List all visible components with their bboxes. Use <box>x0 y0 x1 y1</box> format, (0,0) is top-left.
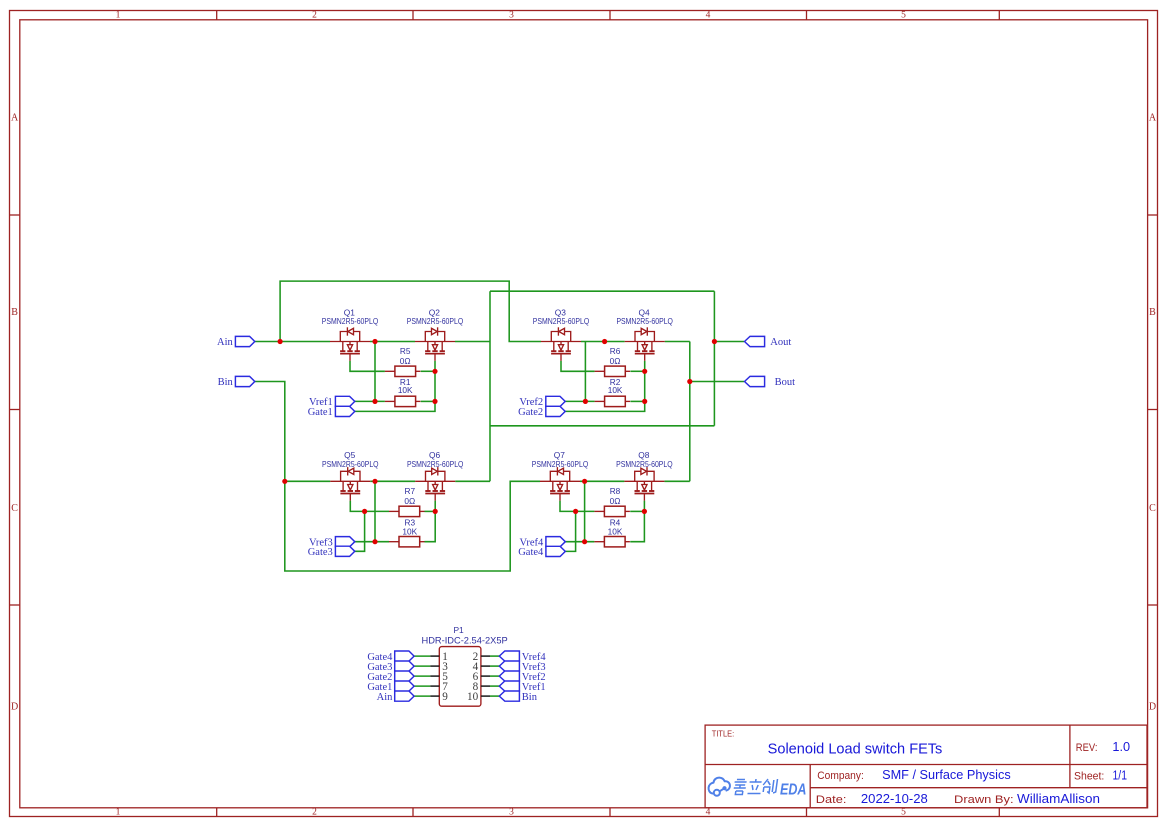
svg-text:2022-10-28: 2022-10-28 <box>861 791 928 806</box>
transistor Q4 (PSMN2R5-60PLQ) <box>625 327 665 361</box>
transistor Q8 (PSMN2R5-60PLQ) <box>624 467 664 501</box>
svg-text:R5: R5 <box>400 346 411 356</box>
svg-text:3: 3 <box>509 808 514 818</box>
junction Vref1 <box>372 399 377 404</box>
svg-text:R8: R8 <box>610 486 621 496</box>
svg-text:PSMN2R5-60PLQ: PSMN2R5-60PLQ <box>407 459 464 469</box>
svg-text:2: 2 <box>312 11 317 21</box>
svg-text:Bin: Bin <box>522 692 538 703</box>
svg-text:PSMN2R5-60PLQ: PSMN2R5-60PLQ <box>322 459 379 469</box>
wire Q2 source right <box>455 341 490 343</box>
wire Gate1 to Q2 gate <box>355 361 435 412</box>
svg-text:Ain: Ain <box>217 337 234 348</box>
svg-text:PSMN2R5-60PLQ: PSMN2R5-60PLQ <box>407 316 464 326</box>
svg-text:A: A <box>1149 113 1157 124</box>
port Gate4 <box>395 651 414 661</box>
wire R2 to Gate2 vertical <box>630 400 644 402</box>
svg-text:5: 5 <box>901 11 906 21</box>
svg-text:2: 2 <box>312 808 317 818</box>
wire Q3 gate to R6 <box>561 361 595 372</box>
wire Gate3 up <box>355 511 365 551</box>
svg-text:Gate4: Gate4 <box>518 547 544 558</box>
svg-text:PSMN2R5-60PLQ: PSMN2R5-60PLQ <box>322 316 379 326</box>
junction R2 right <box>642 399 647 404</box>
resistor R5 0&#937; <box>385 366 421 376</box>
wire P1 left pin stub <box>414 675 430 677</box>
wire Q8 gate down <box>643 501 645 512</box>
svg-text:1: 1 <box>116 11 121 21</box>
junction Bout <box>687 379 692 384</box>
junction block1 main <box>372 339 377 344</box>
wire P1 right pin stub <box>490 665 499 667</box>
svg-text:A: A <box>11 113 19 124</box>
wire Q6 gate down <box>434 501 436 512</box>
svg-text:B: B <box>11 307 18 318</box>
resistor R1 10K <box>385 396 421 406</box>
wire Q6 source right <box>455 480 490 482</box>
wire Bin branch to Q5 <box>285 480 331 482</box>
svg-text:Aout: Aout <box>770 337 791 348</box>
svg-text:D: D <box>1149 702 1156 713</box>
wire to Aout port <box>714 341 744 343</box>
svg-text:10K: 10K <box>608 526 623 536</box>
resistor R4 10K <box>594 537 630 547</box>
transistor Q2 (PSMN2R5-60PLQ) <box>415 327 455 361</box>
svg-text:4: 4 <box>706 808 711 818</box>
wire vertical x490 net A-right <box>489 291 491 481</box>
wire Q5 to Q6 <box>370 480 415 482</box>
transistor Q1 (PSMN2R5-60PLQ) <box>330 327 370 361</box>
transistor Q3 (PSMN2R5-60PLQ) <box>541 327 581 361</box>
wire P1 right pin stub <box>490 655 499 657</box>
junction Vref4 <box>582 539 587 544</box>
wire P1 left pin stub <box>414 695 430 697</box>
svg-text:PSMN2R5-60PLQ: PSMN2R5-60PLQ <box>532 459 589 469</box>
svg-text:10K: 10K <box>608 385 623 395</box>
wire top bus Ain branch to Q3 <box>280 281 541 341</box>
junction Gate3 <box>362 509 367 514</box>
svg-text:1.0: 1.0 <box>1112 739 1130 754</box>
port Gate2 <box>546 406 565 416</box>
junction R6 right <box>642 369 647 374</box>
wire Vref1 to R1 <box>355 400 385 402</box>
junction Vref3 <box>372 539 377 544</box>
port Bin <box>499 691 519 701</box>
wire P1 right pin stub <box>490 685 499 687</box>
junction Vref2 <box>583 399 588 404</box>
wire Vref3 to R3 <box>355 541 389 543</box>
svg-text:Drawn By:: Drawn By: <box>954 794 1014 806</box>
port Vref1 <box>499 681 519 691</box>
wire P1 right pin stub <box>490 675 499 677</box>
port Vref2 <box>499 671 519 681</box>
svg-text:Bin: Bin <box>218 377 234 388</box>
wire R5 to Gate1 vertical <box>421 370 435 372</box>
resistor R7 0&#937; <box>389 506 425 516</box>
svg-text:10: 10 <box>467 691 479 703</box>
junction block2 main <box>602 339 607 344</box>
junction R5 right <box>432 369 437 374</box>
svg-text:R6: R6 <box>610 346 621 356</box>
transistor Q7 (PSMN2R5-60PLQ) <box>540 467 580 501</box>
port Vref1 <box>335 396 354 406</box>
wire Q1 to Q2 <box>370 341 415 343</box>
svg-text:9: 9 <box>442 691 448 703</box>
wire R4 right up <box>630 511 644 541</box>
svg-text:0Ω: 0Ω <box>610 356 621 366</box>
svg-text:TITLE:: TITLE: <box>712 729 734 738</box>
port Ain <box>395 691 414 701</box>
wire Gate4 up <box>565 511 575 551</box>
svg-text:Ain: Ain <box>377 692 394 703</box>
svg-text:1: 1 <box>116 808 121 818</box>
title block <box>705 725 1147 808</box>
resistor R3 10K <box>389 537 425 547</box>
wire R8 to junction <box>630 510 644 512</box>
transistor Q6 (PSMN2R5-60PLQ) <box>415 467 455 501</box>
wire R1 to Gate1 vertical <box>421 400 435 402</box>
wire Vref2 to R2 <box>565 400 594 402</box>
wire P1 right pin stub <box>490 695 499 697</box>
resistor R2 10K <box>595 396 631 406</box>
transistor Q5 (PSMN2R5-60PLQ) <box>330 467 370 501</box>
svg-text:5: 5 <box>901 808 906 818</box>
wire bus y291 to Aout column <box>490 290 714 292</box>
junction Gate4 <box>573 509 578 514</box>
port Ain <box>235 336 254 346</box>
svg-text:Gate3: Gate3 <box>308 547 333 558</box>
svg-text:PSMN2R5-60PLQ: PSMN2R5-60PLQ <box>616 316 673 326</box>
port Aout <box>745 336 765 346</box>
port Vref3 <box>499 661 519 671</box>
wire Q1 gate to R5 <box>350 361 385 372</box>
wire Q7 to Q8 <box>580 480 624 482</box>
wire vertical x690 Bout net <box>689 342 691 482</box>
svg-text:R7: R7 <box>404 486 415 496</box>
wire vertical x375 block3 <box>374 481 376 541</box>
svg-text:Gate1: Gate1 <box>308 407 333 418</box>
svg-text:1/1: 1/1 <box>1113 767 1128 782</box>
svg-text:10K: 10K <box>402 526 417 536</box>
svg-text:EDA: EDA <box>780 782 807 799</box>
wire Q4 source right <box>665 341 690 343</box>
junction Bin branch <box>282 479 287 484</box>
svg-text:Bout: Bout <box>775 377 796 388</box>
svg-text:Solenoid Load switch FETs: Solenoid Load switch FETs <box>768 741 943 757</box>
port Gate3 <box>395 661 414 671</box>
port Bout <box>745 376 765 386</box>
svg-text:P1: P1 <box>453 625 464 635</box>
port Gate2 <box>395 671 414 681</box>
wire vertical x585 block4 <box>584 481 586 541</box>
svg-text:0Ω: 0Ω <box>404 496 415 506</box>
svg-text:HDR-IDC-2.54-2X5P: HDR-IDC-2.54-2X5P <box>422 635 508 645</box>
svg-text:10K: 10K <box>398 385 413 395</box>
svg-text:C: C <box>1149 503 1156 514</box>
port Gate1 <box>335 406 354 416</box>
svg-text:PSMN2R5-60PLQ: PSMN2R5-60PLQ <box>533 316 590 326</box>
wire Q5 gate to R7 <box>350 501 389 512</box>
svg-text:WilliamAllison: WilliamAllison <box>1017 791 1100 806</box>
port Gate4 <box>546 546 565 556</box>
junction block4 main <box>582 479 587 484</box>
port Vref3 <box>335 537 354 547</box>
resistor R8 0&#937; <box>594 506 630 516</box>
junction Ain branch <box>278 339 283 344</box>
port Gate1 <box>395 681 414 691</box>
wire R3 right up <box>425 511 436 541</box>
wire P1 left pin stub <box>414 685 430 687</box>
junction R8 right <box>642 509 647 514</box>
port Gate3 <box>335 546 354 556</box>
svg-text:3: 3 <box>509 11 514 21</box>
svg-text:0Ω: 0Ω <box>400 356 411 366</box>
port Bin <box>235 376 254 386</box>
junction block3 main <box>372 479 377 484</box>
wire Gate2 to Q4 gate <box>565 361 645 412</box>
wire R6 to Gate2 vertical <box>630 370 644 372</box>
wire vertical x585 block2 <box>584 342 586 402</box>
wire vertical x714 Aout <box>713 291 715 426</box>
wire Ain to Q1 drain <box>255 341 330 343</box>
svg-text:SMF / Surface Physics: SMF / Surface Physics <box>882 767 1011 782</box>
wire R7 to junction <box>425 510 436 512</box>
logo JLC EDA <box>709 778 730 796</box>
wire P1 left pin stub <box>414 665 430 667</box>
svg-text:0Ω: 0Ω <box>610 496 621 506</box>
svg-text:Gate2: Gate2 <box>518 407 543 418</box>
port Vref4 <box>499 651 519 661</box>
junction R1 right <box>432 399 437 404</box>
wire to Bout port <box>690 381 744 383</box>
svg-text:PSMN2R5-60PLQ: PSMN2R5-60PLQ <box>616 459 673 469</box>
wire horizontal y426 A-right link <box>490 425 714 427</box>
svg-text:D: D <box>11 702 18 713</box>
svg-text:C: C <box>11 503 18 514</box>
junction Aout <box>712 339 717 344</box>
svg-text:B: B <box>1149 307 1156 318</box>
wire Q3 to Q4 <box>581 341 625 343</box>
wire P1 left pin stub <box>414 655 430 657</box>
port Vref2 <box>546 396 565 406</box>
svg-text:4: 4 <box>706 11 711 21</box>
resistor R6 0&#937; <box>595 366 631 376</box>
wire Vref4 to R4 <box>565 541 594 543</box>
wire Q8 source right <box>664 480 689 482</box>
svg-text:Company:: Company: <box>817 770 864 782</box>
wire vertical x375 block1 <box>374 342 376 402</box>
svg-text:Sheet:: Sheet: <box>1074 770 1104 782</box>
port Vref4 <box>546 537 565 547</box>
svg-text:REV:: REV: <box>1076 742 1098 754</box>
svg-text:Date:: Date: <box>816 794 847 806</box>
junction R7 right <box>433 509 438 514</box>
wire Q7 gate to R8 <box>560 501 594 512</box>
wire Bin bus to Q7 <box>255 382 540 572</box>
